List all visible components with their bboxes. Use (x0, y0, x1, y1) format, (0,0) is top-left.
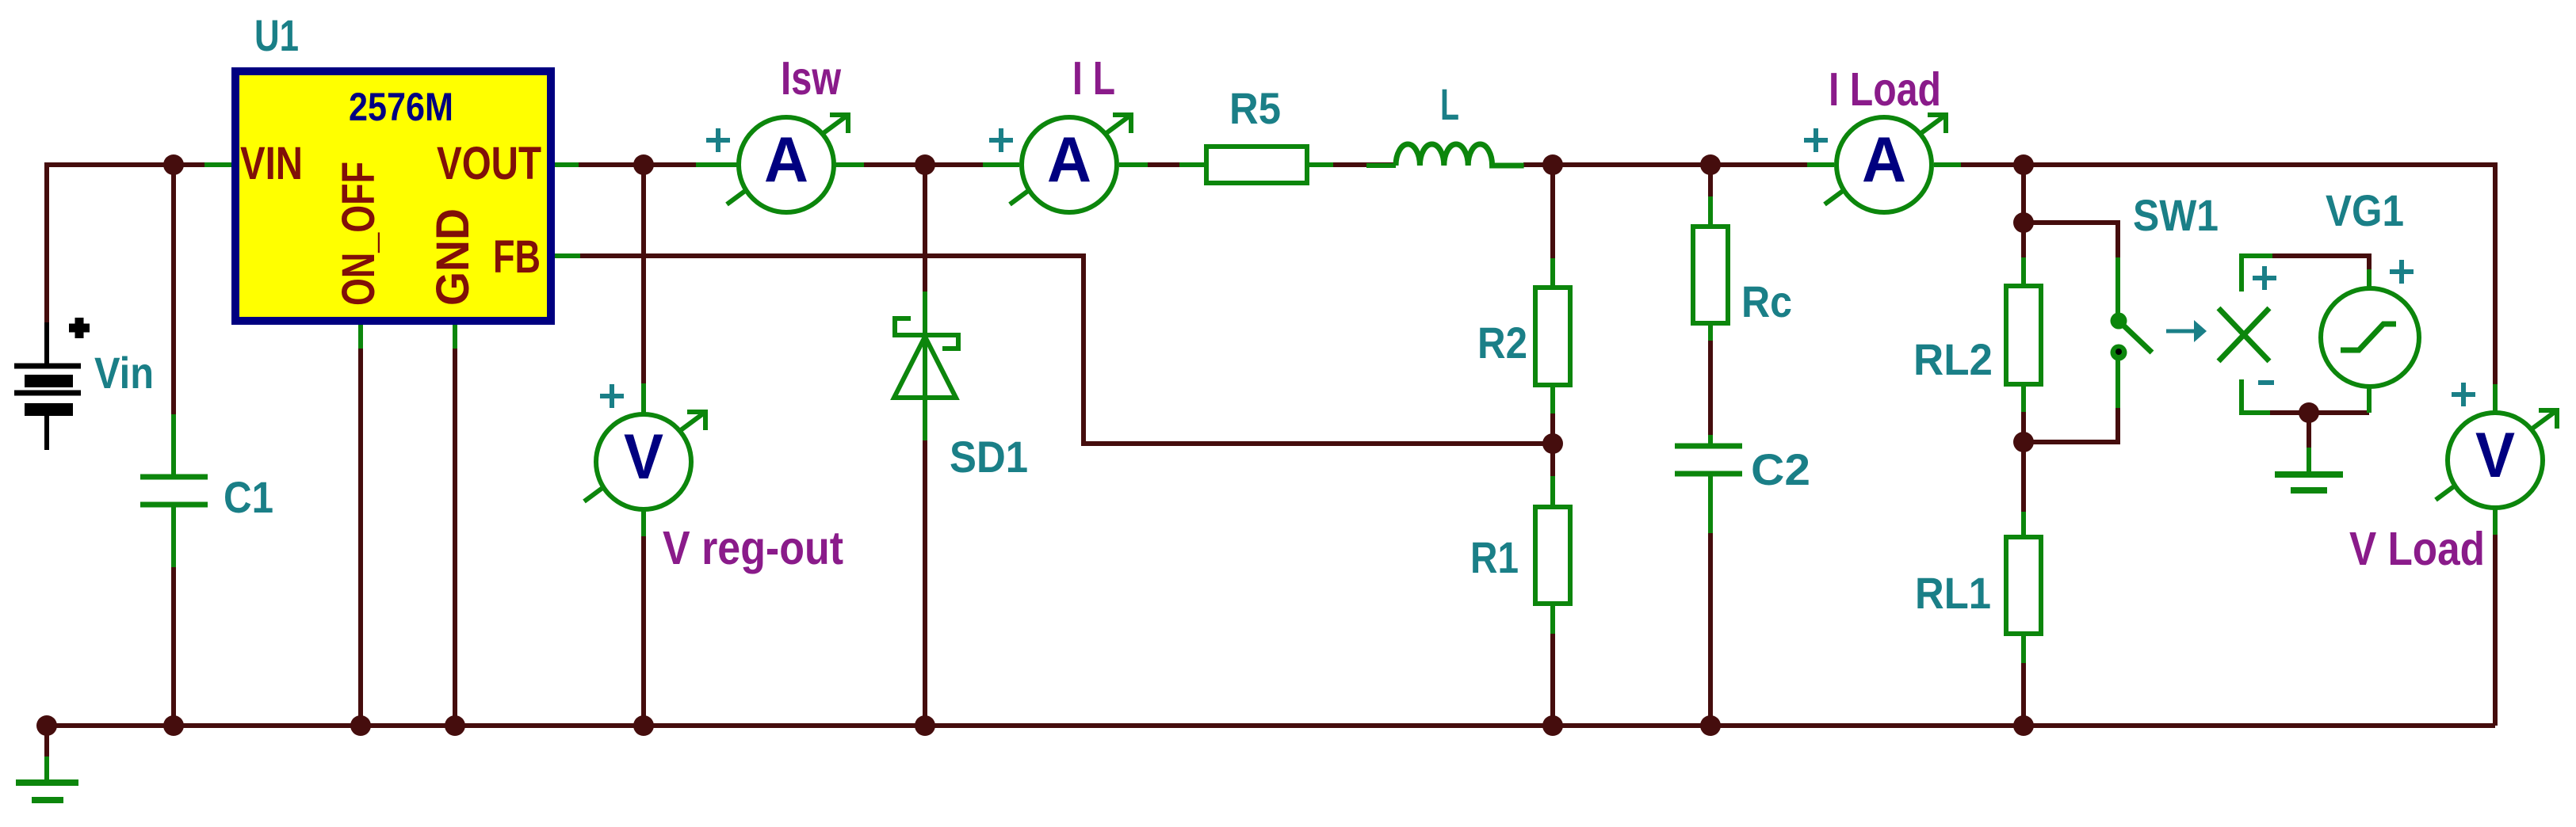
junction top rail at RL2 (2013, 154, 2034, 175)
junction VG1 ground node (2299, 402, 2319, 423)
junction FB node at R2 R1 (1542, 433, 1563, 454)
wire R2 column (1550, 165, 1555, 288)
svg-text:RL2: RL2 (1913, 334, 1993, 384)
pin stub I Load left (1807, 162, 1834, 167)
pin stub V reg-out top (641, 383, 646, 413)
wire Isw to IL segment (835, 162, 1019, 167)
pin stub U1 ON_OFF (358, 325, 363, 349)
svg-text:GND: GND (427, 208, 479, 306)
source VG1 (2321, 185, 2419, 387)
pin stub U1 FB (555, 253, 580, 258)
junction top rail at SD1 (915, 154, 935, 175)
wire SD1 column (923, 165, 927, 337)
pin stub Isw right (835, 162, 864, 167)
svg-text:2576M: 2576M (349, 85, 453, 129)
wire C1 column (171, 165, 176, 477)
wire bottom rail (47, 723, 2495, 728)
svg-text:I L: I L (1072, 52, 1115, 105)
pin stub U1 GND (453, 325, 457, 349)
pin stub RL1 bottom (2021, 634, 2026, 663)
svg-text:V Load: V Load (2349, 523, 2485, 575)
pin stub V Load bottom (2493, 509, 2498, 535)
wire VG1 bottom bracket net (2270, 410, 2369, 415)
pin stub C1 top (171, 414, 176, 477)
wire ON_OFF pin down (358, 325, 363, 726)
wire L to I Load segment (1523, 162, 1834, 167)
svg-text:VIN: VIN (240, 138, 303, 189)
svg-text:R1: R1 (1470, 532, 1519, 582)
junction top rail at Rc (1700, 154, 1721, 175)
ammeter IL (989, 52, 1131, 212)
wire I Load to top right corner down to V Load (1934, 165, 2495, 411)
svg-text:V: V (624, 421, 663, 493)
junction top rail at R2 (1542, 154, 1563, 175)
WIRES-MAROON (47, 165, 2495, 758)
pin stub C1 bottom (171, 505, 176, 567)
ammeter I Load (1804, 63, 1946, 212)
pin stub SW1 top (2115, 257, 2120, 317)
junction SW1 bottom branch (2013, 432, 2034, 452)
wire RL1 column (2021, 442, 2026, 537)
resistor Rc (1693, 227, 1792, 326)
junction SW1 top branch (2013, 212, 2034, 233)
wire R5 to L segment (1307, 162, 1395, 167)
controlled switch cross X (2219, 308, 2269, 361)
pin stub RL2 top (2021, 257, 2026, 286)
resistor RL2 (1913, 286, 2041, 384)
wire IL to R5 segment (1119, 162, 1206, 167)
pin stub VG1 ground (2307, 448, 2311, 474)
svg-text:Isw: Isw (781, 52, 841, 105)
wire FB net (579, 256, 1553, 444)
pin stub SD1 bottom (923, 396, 927, 440)
pin stub R1 bottom (1550, 604, 1555, 634)
GREEN PIN STUBS (47, 165, 2495, 783)
resistor RL1 (1915, 537, 2041, 634)
wire VG1 ground stub (2307, 413, 2311, 449)
battery Vin (14, 318, 154, 450)
pin stub R2 top (1550, 258, 1555, 288)
IC U1 2576M regulator box (235, 10, 551, 321)
inductor L (1396, 79, 1524, 166)
svg-text:R5: R5 (1229, 83, 1281, 133)
svg-text:VG1: VG1 (2326, 185, 2404, 235)
wire V reg-out column (641, 165, 646, 413)
svg-text:U1: U1 (254, 10, 299, 60)
svg-text:L: L (1440, 79, 1459, 129)
svg-text:V reg-out: V reg-out (663, 522, 843, 574)
wire V Load bottom (2493, 509, 2498, 726)
junction top rail at C1 (163, 154, 184, 175)
pin stub IL right (1119, 162, 1148, 167)
wire RL2 column (2021, 165, 2026, 286)
pin stub VG1 bottom (2367, 387, 2372, 413)
pin stub I Load right (1934, 162, 1961, 167)
capacitor C2 (1675, 444, 1810, 494)
pin stub R2 bottom (1550, 385, 1555, 413)
VG1 control brackets (2242, 256, 2276, 413)
svg-text:VOUT: VOUT (437, 138, 541, 189)
switch SW1 (2111, 190, 2219, 361)
wire GND pin down (453, 325, 457, 726)
wire ground stub bottom left (44, 726, 49, 758)
ground VG1 (2275, 474, 2343, 490)
pin stub R1 top (1550, 476, 1555, 507)
pin stub ground bottom left (44, 756, 49, 783)
wire top rail left from corner to VIN (47, 165, 211, 326)
pin stub V Load top (2493, 384, 2498, 411)
svg-text:C1: C1 (224, 472, 273, 522)
pin stub IL left (983, 162, 1019, 167)
pin stub L left (1366, 163, 1396, 168)
svg-text:Vin: Vin (94, 348, 154, 398)
capacitor C1 (140, 472, 273, 522)
svg-text:A: A (1047, 124, 1091, 196)
wire Rc C2 column (1708, 165, 1713, 227)
svg-text:ON_OFF: ON_OFF (333, 162, 384, 306)
pin stub SD1 top (923, 292, 927, 398)
svg-text:SW1: SW1 (2133, 190, 2219, 240)
wire SW1 branch bottom (2024, 359, 2118, 442)
pin stub Rc top (1708, 196, 1713, 227)
junction bottom rail GND (445, 715, 465, 736)
pin stub Isw left (696, 162, 737, 167)
svg-text:FB: FB (493, 231, 541, 283)
voltmeter V Load (2349, 383, 2557, 575)
ammeter Isw (706, 52, 848, 212)
diode SD1 schottky (894, 318, 1028, 482)
junction bottom rail SD1 (915, 715, 935, 736)
pin stub RL1 top (2021, 512, 2026, 537)
junction bottom rail C2 (1700, 715, 1721, 736)
switch control arrow (2166, 320, 2207, 342)
pin stub SW1 bottom (2115, 358, 2120, 408)
svg-text:RL1: RL1 (1915, 568, 1991, 618)
junction bottom rail V reg-out (633, 715, 654, 736)
pin stub VG1 top (2367, 269, 2372, 288)
wire SW1 branch top (2024, 223, 2118, 320)
pin stub V reg-out bottom (641, 511, 646, 536)
junction top rail at V reg-out (633, 154, 654, 175)
wire VG1 top bracket net (2272, 256, 2369, 272)
svg-text:Rc: Rc (1741, 276, 1792, 326)
ground bottom left (16, 783, 78, 800)
pin stub R5 right (1307, 162, 1333, 167)
svg-text:C2: C2 (1751, 444, 1810, 494)
resistor R5 (1206, 83, 1307, 183)
svg-text:V: V (2475, 420, 2515, 491)
pin stub C2 top (1708, 435, 1713, 446)
pin stub U1 VIN (204, 162, 231, 167)
resistor R1 (1470, 507, 1570, 604)
pin stub C2 bottom (1708, 476, 1713, 533)
resistor R2 (1477, 288, 1570, 385)
junction bottom rail RL1 (2013, 715, 2034, 736)
junction bottom rail C1 (163, 715, 184, 736)
svg-text:A: A (764, 124, 808, 196)
svg-text:SD1: SD1 (950, 432, 1028, 482)
svg-text:R2: R2 (1477, 318, 1527, 368)
voltmeter V reg-out (584, 384, 843, 574)
junction bottom rail R1 (1542, 715, 1563, 736)
svg-text:A: A (1862, 124, 1906, 196)
wire R1 column (1550, 443, 1555, 507)
junction bottom rail ground (36, 715, 57, 736)
svg-text:I Load: I Load (1829, 63, 1941, 116)
pin stub U1 VOUT (555, 162, 579, 167)
wire VOUT to Isw junction segment (579, 162, 737, 167)
pin stub Rc bottom (1708, 323, 1713, 341)
junction bottom rail ON_OFF (350, 715, 371, 736)
pin stub R5 left (1179, 162, 1206, 167)
pin stub RL2 bottom (2021, 384, 2026, 412)
